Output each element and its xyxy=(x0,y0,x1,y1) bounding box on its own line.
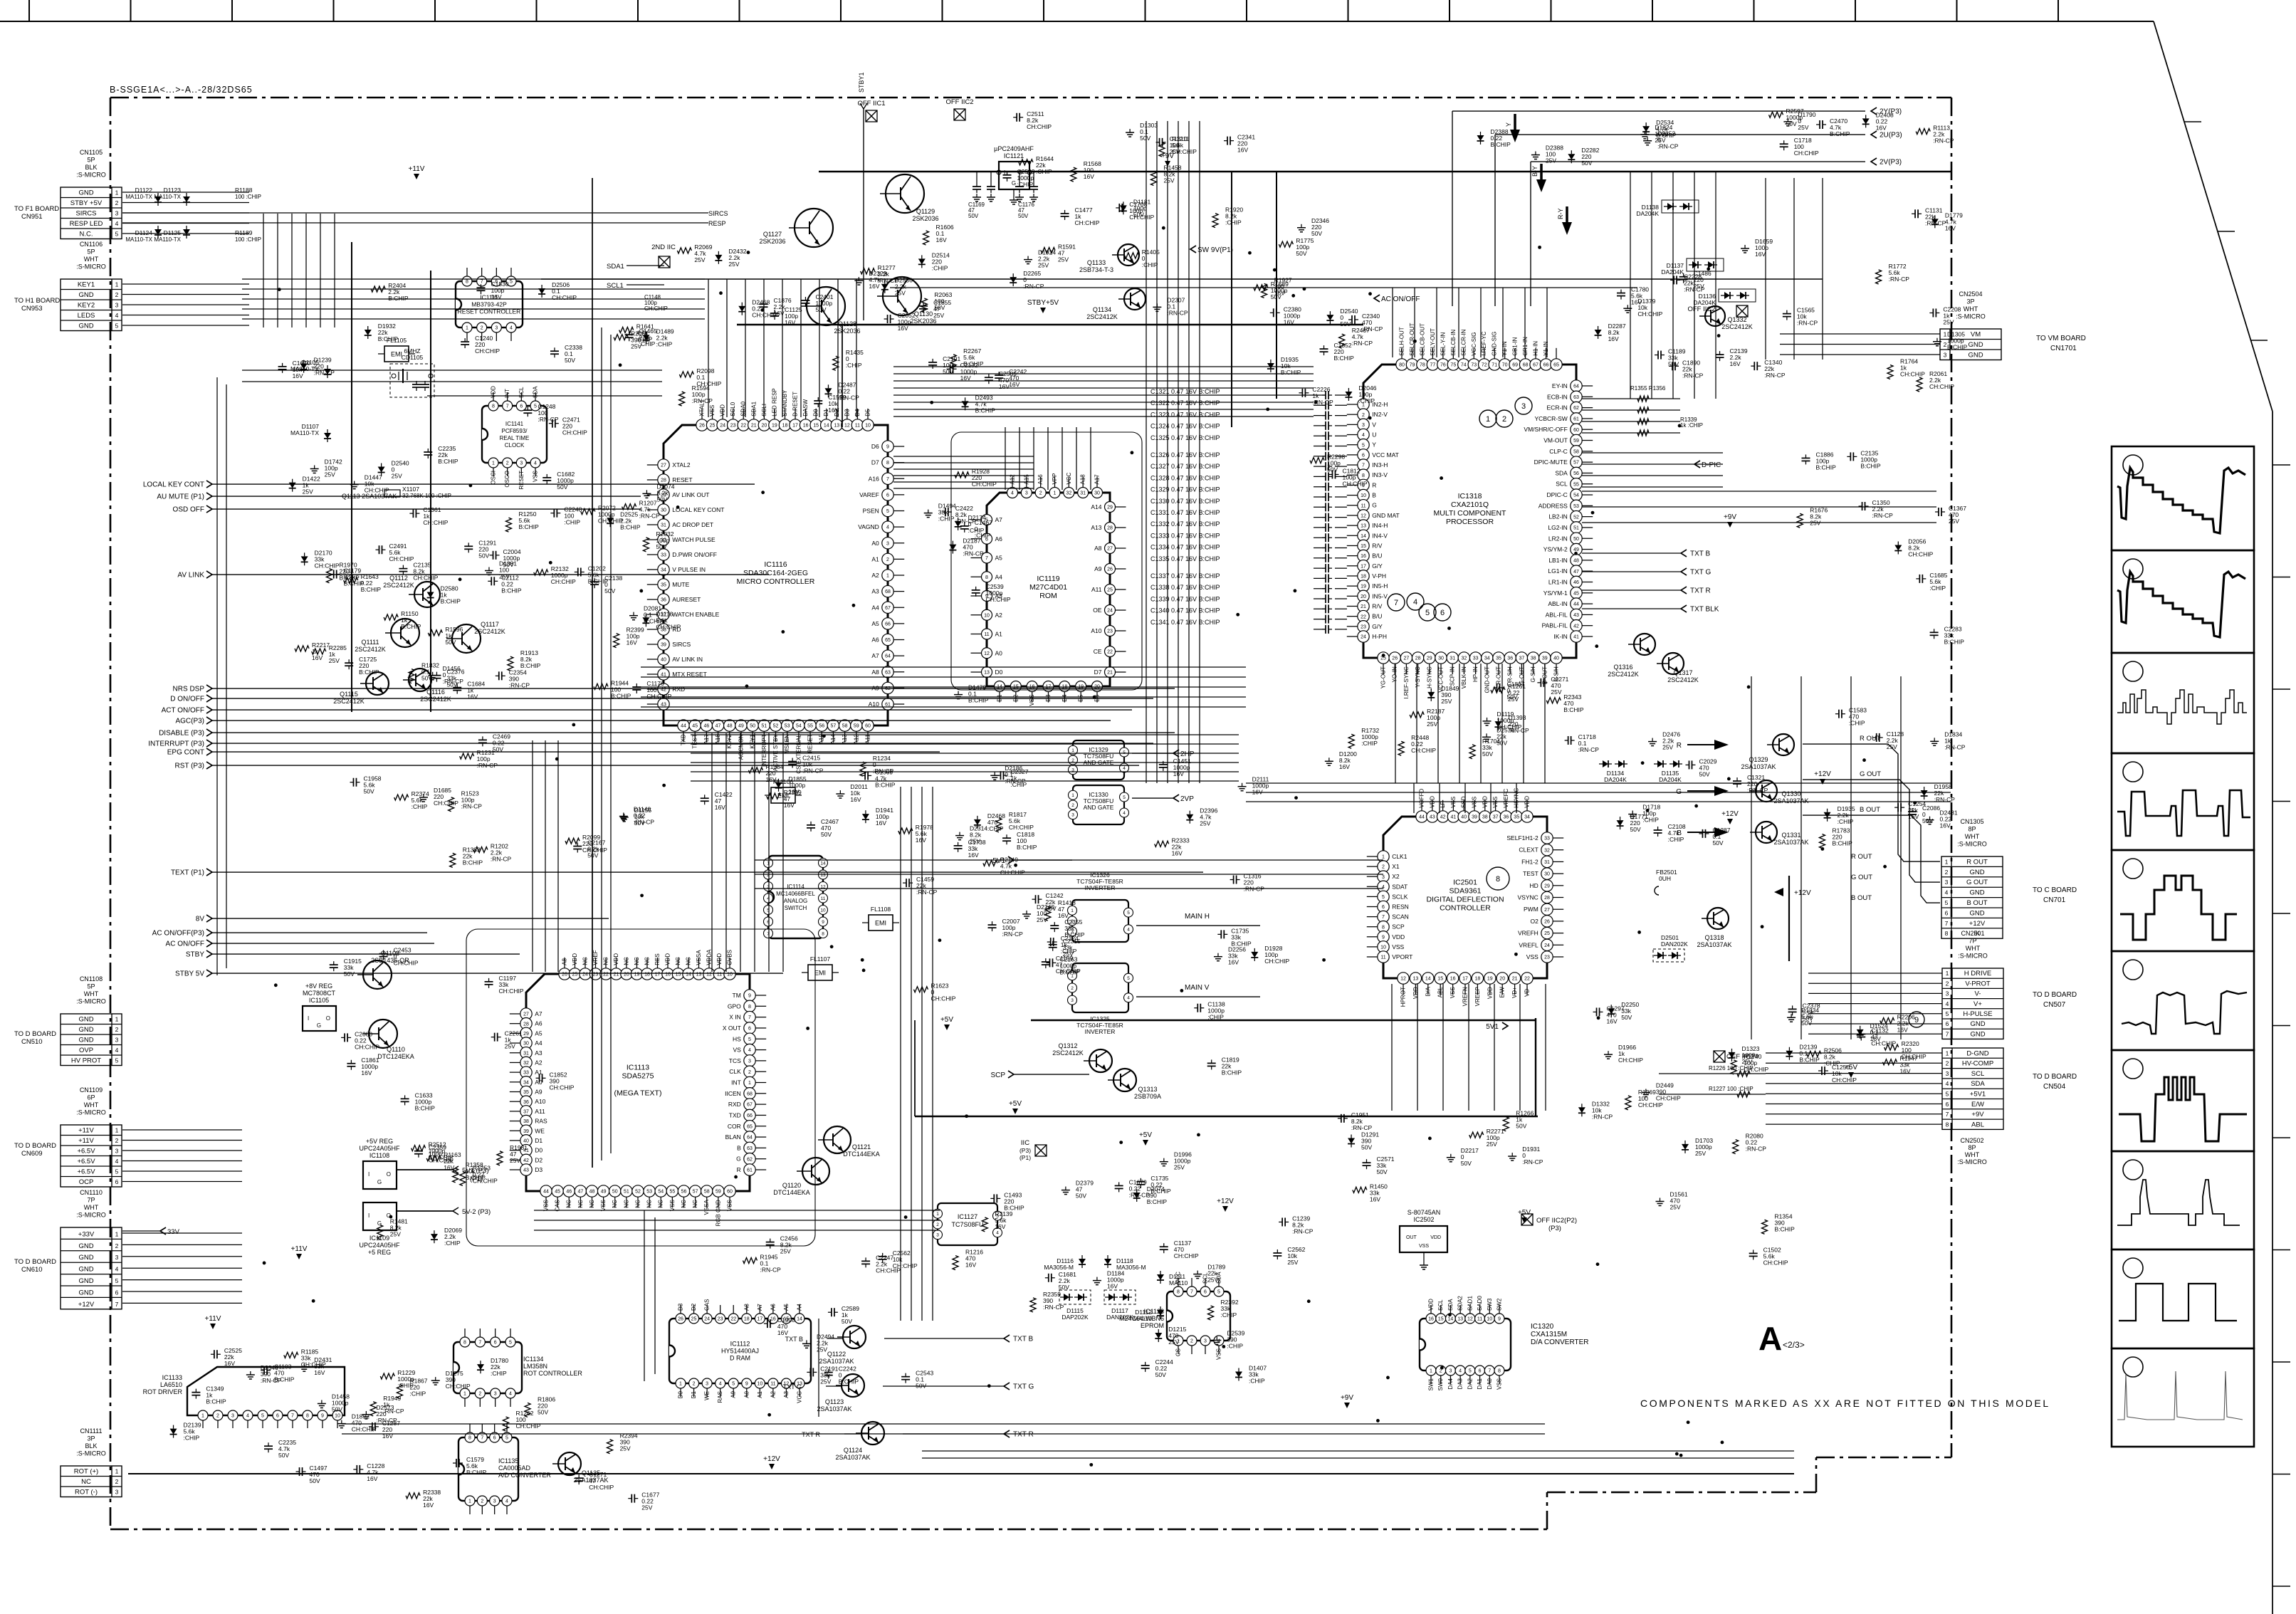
svg-text:50: 50 xyxy=(750,724,755,729)
svg-text::RN-CP: :RN-CP xyxy=(639,513,661,520)
svg-text:RESP LED: RESP LED xyxy=(70,220,103,228)
connector CN2501 xyxy=(1942,968,2003,1039)
svg-text:46: 46 xyxy=(1573,580,1579,585)
svg-text:43: 43 xyxy=(1573,613,1579,618)
svg-text::RN-CP: :RN-CP xyxy=(692,397,713,404)
svg-text:1: 1 xyxy=(1430,1369,1432,1374)
border left xyxy=(110,98,112,1529)
svg-text:58: 58 xyxy=(842,724,848,729)
svg-text:R1189: R1189 xyxy=(235,229,253,236)
svg-text:4: 4 xyxy=(115,1158,119,1165)
svg-text:11: 11 xyxy=(1361,503,1365,508)
svg-text:5: 5 xyxy=(1945,899,1949,906)
svg-text:+12V: +12V xyxy=(1721,810,1739,818)
svg-text:GND: GND xyxy=(1969,869,1984,876)
svg-text:C1334 0.47 16V B:CHIP: C1334 0.47 16V B:CHIP xyxy=(1150,544,1220,551)
svg-text:50V: 50V xyxy=(842,1318,852,1325)
svg-text:RESN: RESN xyxy=(1392,903,1409,911)
svg-text:NC: NC xyxy=(589,1200,595,1208)
svg-text::RN-CP: :RN-CP xyxy=(314,370,335,377)
svg-text:VCC-SIG: VCC-SIG xyxy=(1471,332,1477,355)
svg-text:A3: A3 xyxy=(871,588,879,595)
svg-text:63: 63 xyxy=(1573,395,1579,400)
svg-text:IC1105: IC1105 xyxy=(309,997,329,1004)
svg-text:D/A CONVERTER: D/A CONVERTER xyxy=(1531,1338,1589,1346)
svg-text:7: 7 xyxy=(748,1015,751,1020)
wire 2V drop xyxy=(1531,161,1865,162)
svg-text:60: 60 xyxy=(727,1190,733,1195)
svg-text:LF: LF xyxy=(1440,801,1446,807)
svg-text:Y: Y xyxy=(1505,122,1512,127)
transistor Q1133 xyxy=(1118,244,1139,266)
svg-text:B:CHIP: B:CHIP xyxy=(1947,344,1968,351)
svg-text:3: 3 xyxy=(494,1392,497,1397)
svg-text:7: 7 xyxy=(1190,1290,1193,1295)
IC IC1134 rot controller xyxy=(454,1342,522,1393)
svg-text:D-PIC: D-PIC xyxy=(1702,461,1721,469)
svg-text:A12: A12 xyxy=(853,734,859,745)
svg-text:VDD: VDD xyxy=(1428,1299,1435,1311)
svg-text:77: 77 xyxy=(1430,363,1436,368)
svg-text:78: 78 xyxy=(1420,363,1425,368)
svg-text:25: 25 xyxy=(1544,931,1550,936)
svg-text:C1338 0.47 16V B:CHIP: C1338 0.47 16V B:CHIP xyxy=(1150,584,1220,591)
waveform box 5 xyxy=(2112,850,2254,951)
border bottom mid xyxy=(1547,1492,1816,1494)
svg-text:INT: INT xyxy=(504,389,510,398)
svg-text:2: 2 xyxy=(1071,803,1074,808)
svg-text:TO F1 BOARD: TO F1 BOARD xyxy=(14,205,59,213)
svg-text:5: 5 xyxy=(115,231,119,238)
svg-text:2SA1037AK: 2SA1037AK xyxy=(1697,941,1731,948)
svg-text:N.C.: N.C. xyxy=(80,231,93,239)
svg-text:A6: A6 xyxy=(535,1020,542,1027)
svg-text:WHT: WHT xyxy=(84,1101,99,1109)
svg-text:KEY2: KEY2 xyxy=(78,302,95,310)
svg-text:1: 1 xyxy=(679,1382,682,1387)
svg-text:47: 47 xyxy=(1573,570,1579,575)
svg-text:26: 26 xyxy=(1392,656,1398,661)
transistor Q1129 xyxy=(886,174,924,213)
svg-text:D1: D1 xyxy=(691,1390,697,1398)
svg-text:50V: 50V xyxy=(1076,1193,1086,1200)
svg-text:4: 4 xyxy=(1459,1369,1462,1374)
svg-text:50V: 50V xyxy=(1340,320,1351,327)
svg-text:7: 7 xyxy=(985,556,988,561)
svg-text:A1: A1 xyxy=(535,1069,542,1076)
svg-text:17: 17 xyxy=(1462,977,1468,982)
svg-text:SDA1: SDA1 xyxy=(607,263,624,271)
wire micro top feeds xyxy=(708,279,709,417)
svg-text:2: 2 xyxy=(115,1242,119,1249)
IC IC1141 real time clock xyxy=(482,406,547,463)
svg-text:4: 4 xyxy=(1217,1339,1220,1344)
svg-text:A17: A17 xyxy=(703,734,710,745)
svg-text:NC: NC xyxy=(635,1200,641,1208)
svg-text:X OUT: X OUT xyxy=(723,1025,741,1032)
svg-text:25V: 25V xyxy=(1695,1150,1706,1157)
svg-text:25V: 25V xyxy=(329,657,340,664)
svg-text:GND: GND xyxy=(1970,1020,1985,1028)
svg-text:VDD: VDD xyxy=(1487,987,1493,999)
svg-text::RN-CP: :RN-CP xyxy=(1002,931,1024,938)
IC IC1123 eprom xyxy=(1167,1291,1230,1341)
svg-text:39: 39 xyxy=(523,1129,529,1134)
svg-text:+12V: +12V xyxy=(1217,1198,1234,1205)
svg-text:100 :CHIP: 100 :CHIP xyxy=(235,236,261,243)
wire bus right mid xyxy=(1246,782,1951,784)
svg-text:2SC2412K: 2SC2412K xyxy=(1721,323,1753,330)
svg-text:25V: 25V xyxy=(817,1346,827,1353)
svg-text:IC1116: IC1116 xyxy=(764,560,787,569)
svg-text:V-PH: V-PH xyxy=(1372,572,1386,580)
svg-text:VD+: VD+ xyxy=(1511,987,1518,998)
wire megatext wrap loop xyxy=(466,929,815,1246)
svg-text:36: 36 xyxy=(523,1100,529,1105)
svg-text:50V: 50V xyxy=(1668,361,1679,368)
svg-text:B:CHIP: B:CHIP xyxy=(1017,844,1037,851)
svg-text:5: 5 xyxy=(1123,795,1126,800)
wire 2VP xyxy=(1173,795,1179,802)
svg-text:DA2: DA2 xyxy=(1467,1378,1473,1389)
svg-text:CH:CHIP: CH:CHIP xyxy=(1794,150,1819,157)
svg-text:3: 3 xyxy=(706,1382,708,1387)
svg-text::RN-CP: :RN-CP xyxy=(873,767,894,775)
diode D1136-D1138 xyxy=(1662,200,1699,213)
svg-text:4: 4 xyxy=(1382,885,1385,890)
svg-text:3P: 3P xyxy=(87,1435,95,1442)
svg-text:B:CHIP: B:CHIP xyxy=(340,575,360,582)
svg-text:6: 6 xyxy=(886,493,889,498)
svg-text:35: 35 xyxy=(1514,815,1519,820)
svg-text:50V: 50V xyxy=(332,1405,342,1413)
svg-text:VSS: VSS xyxy=(1029,695,1035,706)
svg-text:D.PWR ON/OFF: D.PWR ON/OFF xyxy=(672,551,717,558)
svg-text:WE: WE xyxy=(535,1127,545,1134)
svg-text:CH:CHIP: CH:CHIP xyxy=(1908,550,1933,557)
svg-text:8P: 8P xyxy=(1968,826,1976,833)
svg-text:CH:CHIP: CH:CHIP xyxy=(413,575,438,582)
svg-text:3: 3 xyxy=(115,1148,119,1155)
svg-text:64: 64 xyxy=(1573,384,1579,389)
svg-text:CN1701: CN1701 xyxy=(2050,345,2077,352)
svg-text:Q1330: Q1330 xyxy=(1781,790,1800,797)
svg-text:EMI: EMI xyxy=(814,970,826,977)
svg-text:2: 2 xyxy=(1039,491,1042,496)
svg-text:B:CHIP: B:CHIP xyxy=(1860,462,1881,469)
waveform box 10 xyxy=(2112,1348,2254,1447)
svg-text:50V: 50V xyxy=(363,788,374,795)
svg-text:50V: 50V xyxy=(1376,1168,1387,1175)
svg-text:28: 28 xyxy=(1544,896,1550,901)
transistor Q1108 xyxy=(363,960,392,989)
svg-text:D1125: D1125 xyxy=(164,229,182,236)
wire megatext south bus xyxy=(534,1210,940,1211)
svg-text:8: 8 xyxy=(468,1436,471,1441)
svg-text::RN-CP: :RN-CP xyxy=(1797,320,1818,327)
svg-text:32.768K 100 :CHIP: 32.768K 100 :CHIP xyxy=(402,493,451,499)
svg-text:R OUT: R OUT xyxy=(1860,735,1881,743)
svg-text:B:CHIP: B:CHIP xyxy=(361,586,382,593)
svg-text:Y1-IN: Y1-IN xyxy=(1543,341,1549,356)
wire cn504 feed xyxy=(1766,1052,1942,1054)
svg-text::S-MICRO: :S-MICRO xyxy=(1957,841,1987,848)
svg-text::RN-CP: :RN-CP xyxy=(1352,340,1373,347)
connector CN2504 xyxy=(1940,329,2001,360)
svg-text:10: 10 xyxy=(335,1414,340,1419)
IC IC1320 d/a converter xyxy=(1420,1319,1511,1371)
svg-text:25V: 25V xyxy=(1174,1164,1185,1171)
transistor Q1329 xyxy=(1773,734,1794,755)
svg-text:WHT: WHT xyxy=(1964,305,1978,313)
svg-text:SWITCH: SWITCH xyxy=(785,905,807,911)
svg-text:ACT ON/OFF: ACT ON/OFF xyxy=(162,707,204,715)
diagonal ticks xyxy=(2184,121,2201,122)
wire cn609 cn610 feeds xyxy=(122,1129,242,1131)
svg-text:7: 7 xyxy=(291,1414,294,1419)
svg-text:OCP: OCP xyxy=(79,1178,94,1186)
svg-text:VSS: VSS xyxy=(1526,953,1538,960)
svg-text:B:CHIP: B:CHIP xyxy=(466,1174,486,1181)
svg-text:TO C BOARD: TO C BOARD xyxy=(2033,886,2077,894)
svg-text:EMI: EMI xyxy=(391,351,402,358)
svg-text:3: 3 xyxy=(115,1489,119,1496)
svg-text:TO D BOARD: TO D BOARD xyxy=(14,1030,56,1038)
svg-text:39: 39 xyxy=(661,643,666,648)
svg-text:50V: 50V xyxy=(815,306,826,313)
svg-text:14: 14 xyxy=(1425,977,1431,982)
svg-text::RN-CP: :RN-CP xyxy=(1746,1146,1767,1153)
svg-text:BLAN: BLAN xyxy=(725,1133,741,1141)
svg-text:G/Y: G/Y xyxy=(1372,562,1383,570)
svg-text:NC: NC xyxy=(675,957,681,965)
svg-text:R-OUT: R-OUT xyxy=(1496,666,1502,684)
svg-text:11: 11 xyxy=(821,896,826,901)
svg-text:SDA9361: SDA9361 xyxy=(1450,887,1482,896)
svg-text:ROT (+): ROT (+) xyxy=(74,1468,98,1476)
svg-text:IN5-V: IN5-V xyxy=(1372,592,1388,599)
svg-text:18: 18 xyxy=(1361,575,1366,580)
svg-text:40: 40 xyxy=(523,1139,529,1144)
svg-text:VREFC: VREFC xyxy=(1503,788,1509,807)
wire 2Y 2U 2V outputs xyxy=(1871,108,1877,115)
diode D1111 D1112 xyxy=(1157,1274,1164,1280)
svg-text:B:CHIP: B:CHIP xyxy=(441,598,461,605)
transistor Q1330 xyxy=(1756,780,1777,802)
svg-text:+6.5V: +6.5V xyxy=(77,1148,95,1156)
svg-text:SELH-OUT: SELH-OUT xyxy=(1399,327,1405,356)
svg-text:R: R xyxy=(1677,742,1682,750)
transistor Q1128 xyxy=(807,287,845,325)
svg-text:60: 60 xyxy=(1573,428,1579,433)
svg-text:ANALOG: ANALOG xyxy=(784,898,807,904)
svg-text:68: 68 xyxy=(747,1091,753,1096)
waveform box 2 xyxy=(2112,550,2254,653)
svg-text:GND: GND xyxy=(78,1016,93,1024)
svg-text:43: 43 xyxy=(1430,815,1435,820)
svg-text:52: 52 xyxy=(1573,515,1579,520)
svg-text:B:CHIP: B:CHIP xyxy=(1656,132,1677,139)
svg-text:4: 4 xyxy=(1946,1000,1949,1007)
svg-text:S-80745AN: S-80745AN xyxy=(1408,1209,1441,1216)
svg-text:80: 80 xyxy=(1399,363,1405,368)
svg-text::CHIP: :CHIP xyxy=(1838,818,1854,825)
svg-text:DPIC-C: DPIC-C xyxy=(1547,491,1568,498)
svg-text:B OUT: B OUT xyxy=(1860,806,1880,814)
svg-text:2SA1037AK: 2SA1037AK xyxy=(1741,763,1776,770)
svg-text:LG1-IN: LG1-IN xyxy=(1548,567,1567,575)
svg-text:25V: 25V xyxy=(1038,262,1049,269)
svg-text:R: R xyxy=(737,1166,741,1173)
svg-text:CH:CHIP: CH:CHIP xyxy=(389,555,414,562)
svg-text:CH:CHIP: CH:CHIP xyxy=(446,1383,471,1390)
svg-text:16V: 16V xyxy=(1607,1017,1618,1025)
svg-text:AV LINK IN: AV LINK IN xyxy=(672,656,703,663)
svg-text:4: 4 xyxy=(1011,491,1014,496)
svg-text:MA110: MA110 xyxy=(1169,1279,1188,1287)
svg-text:16V: 16V xyxy=(936,236,947,243)
svg-text:4: 4 xyxy=(115,312,119,319)
svg-text:DISABLE (P3): DISABLE (P3) xyxy=(159,730,204,738)
svg-text:A13: A13 xyxy=(1091,524,1101,531)
svg-text:53: 53 xyxy=(646,1190,652,1195)
svg-text:6: 6 xyxy=(748,1027,751,1032)
svg-text:CN504: CN504 xyxy=(2043,1083,2066,1091)
svg-text:D1123: D1123 xyxy=(164,187,182,194)
waveform box 3 xyxy=(2112,653,2254,753)
svg-text:3: 3 xyxy=(1025,491,1028,496)
svg-text:7: 7 xyxy=(1946,1030,1949,1037)
svg-text:59: 59 xyxy=(854,724,859,729)
svg-text:B:CHIP: B:CHIP xyxy=(438,458,458,465)
svg-text:5: 5 xyxy=(1946,1091,1949,1098)
svg-text:7P: 7P xyxy=(1969,938,1976,945)
svg-text:A10: A10 xyxy=(1091,627,1101,634)
svg-text:15: 15 xyxy=(1361,544,1366,549)
svg-text:VD-: VD- xyxy=(1524,987,1531,997)
svg-text:PWM: PWM xyxy=(1524,906,1538,913)
wire +5V rail b xyxy=(1031,1020,1536,1021)
svg-text:CN610: CN610 xyxy=(21,1266,43,1274)
svg-text:IN2-V: IN2-V xyxy=(1372,411,1388,418)
svg-text:C1325 0.47 16V B:CHIP: C1325 0.47 16V B:CHIP xyxy=(1150,434,1220,441)
svg-text:AGCMON: AGCMON xyxy=(738,734,744,760)
svg-text:12: 12 xyxy=(844,424,850,429)
svg-text:NC: NC xyxy=(582,957,589,965)
svg-text:2: 2 xyxy=(1190,1339,1193,1344)
svg-text:NC: NC xyxy=(577,1200,584,1208)
svg-text::RN-CP: :RN-CP xyxy=(1872,512,1894,519)
wire cn2504 feed xyxy=(1780,333,1940,335)
svg-text:Q1316: Q1316 xyxy=(1613,664,1632,671)
svg-text:4: 4 xyxy=(1413,598,1417,607)
svg-text:1: 1 xyxy=(466,326,468,331)
svg-text:TXT G: TXT G xyxy=(783,1383,802,1390)
svg-text::RN-CP: :RN-CP xyxy=(1292,1227,1314,1235)
svg-text:A5: A5 xyxy=(995,555,1003,562)
sheet cut diagonal xyxy=(2154,21,2273,412)
svg-text::CHIP: :CHIP xyxy=(938,515,955,523)
IC IC1133 rot driver xyxy=(187,1367,345,1415)
svg-text:3: 3 xyxy=(1449,1369,1452,1374)
svg-text:H-PH: H-PH xyxy=(1372,633,1387,640)
svg-text:CXA2101Q: CXA2101Q xyxy=(1451,501,1489,509)
svg-text:A11: A11 xyxy=(535,1108,545,1115)
svg-text:15: 15 xyxy=(1437,977,1443,982)
svg-text:44: 44 xyxy=(1573,602,1579,607)
wire bus megatext vertical xyxy=(900,787,901,1321)
svg-text:A9: A9 xyxy=(730,1390,737,1398)
node circled 6 xyxy=(1434,604,1451,621)
svg-text:2SC2412K: 2SC2412K xyxy=(333,698,365,705)
svg-text:CA0005AD: CA0005AD xyxy=(498,1464,531,1472)
svg-text:R-Y: R-Y xyxy=(1557,209,1564,220)
svg-text:Q1115: Q1115 xyxy=(340,691,358,698)
svg-text:ADDRESS: ADDRESS xyxy=(1538,502,1568,509)
svg-text:1: 1 xyxy=(1944,331,1947,338)
svg-text:16V: 16V xyxy=(1899,1068,1910,1075)
svg-text:ROT DRIVER: ROT DRIVER xyxy=(143,1388,183,1395)
svg-text:CLP-C: CLP-C xyxy=(1549,448,1568,455)
svg-text:CN1106: CN1106 xyxy=(80,241,103,248)
IC IC1127 and gate xyxy=(938,1203,997,1245)
svg-text::CHIP: :CHIP xyxy=(1036,168,1052,175)
svg-text:13: 13 xyxy=(820,873,826,878)
svg-text:49: 49 xyxy=(601,1190,607,1195)
svg-text:67: 67 xyxy=(747,1103,753,1108)
svg-text:CLOCK: CLOCK xyxy=(505,442,525,449)
svg-text:CH:CHIP: CH:CHIP xyxy=(552,294,577,301)
svg-text:66: 66 xyxy=(1543,363,1549,368)
svg-text:34: 34 xyxy=(1484,656,1490,661)
svg-text:C1322 0.47 16V B:CHIP: C1322 0.47 16V B:CHIP xyxy=(1150,399,1220,407)
svg-text:8: 8 xyxy=(822,931,824,936)
svg-text:ABL: ABL xyxy=(1437,987,1444,998)
svg-text:OVP: OVP xyxy=(79,1047,93,1054)
svg-text:C1335 0.47 16V B:CHIP: C1335 0.47 16V B:CHIP xyxy=(1150,555,1220,562)
svg-text:CH:CHIP: CH:CHIP xyxy=(1000,869,1025,876)
svg-text:TC7S08FU: TC7S08FU xyxy=(951,1221,983,1228)
svg-text:GND: GND xyxy=(78,1277,93,1285)
svg-text:3: 3 xyxy=(1946,1070,1949,1077)
svg-text:A2: A2 xyxy=(770,1390,776,1398)
svg-text:C1337 0.47 16V B:CHIP: C1337 0.47 16V B:CHIP xyxy=(1150,572,1220,580)
svg-text::RN-CP: :RN-CP xyxy=(477,762,498,769)
svg-text::CHIP: :CHIP xyxy=(656,340,673,347)
svg-text:NC: NC xyxy=(612,1200,618,1208)
svg-text:25V: 25V xyxy=(728,261,739,268)
svg-text:DA4: DA4 xyxy=(1447,1378,1454,1389)
svg-text:CH:CHIP: CH:CHIP xyxy=(355,1043,379,1050)
svg-text:16: 16 xyxy=(803,424,809,429)
svg-text:35: 35 xyxy=(1496,656,1501,661)
svg-text:4: 4 xyxy=(719,1382,722,1387)
waveform box 9 xyxy=(2112,1249,2254,1348)
svg-text:3: 3 xyxy=(115,1037,119,1044)
svg-text:C1331 0.47 16V B:CHIP: C1331 0.47 16V B:CHIP xyxy=(1150,509,1220,516)
svg-text:48: 48 xyxy=(1573,558,1579,563)
svg-text:50V: 50V xyxy=(1059,1284,1069,1291)
svg-text:5: 5 xyxy=(1217,1290,1220,1295)
svg-text:4: 4 xyxy=(534,461,537,466)
svg-text:R/V: R/V xyxy=(1372,602,1383,609)
svg-text:16V: 16V xyxy=(1945,224,1956,231)
svg-text:4: 4 xyxy=(115,1266,119,1273)
svg-text::S-MICRO: :S-MICRO xyxy=(76,1109,106,1116)
svg-text:A7: A7 xyxy=(871,652,879,659)
svg-text:16V: 16V xyxy=(1252,789,1263,796)
svg-text:EMI: EMI xyxy=(875,920,886,927)
